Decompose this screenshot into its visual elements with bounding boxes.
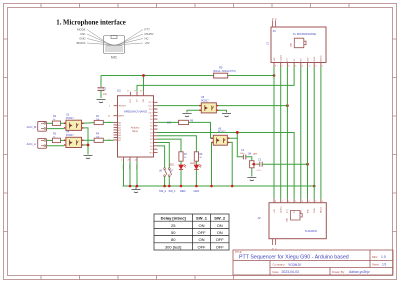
- resistor R9 PTC: [214, 73, 228, 78]
- wire VIN drop: [143, 76, 145, 92]
- svg-text:MIC: MIC: [111, 56, 118, 60]
- wire R4 to A7: [103, 139, 113, 141]
- svg-text:SW_1: SW_1: [196, 216, 208, 221]
- resistor R3: [53, 138, 61, 142]
- wire to SW_1 column: [158, 143, 170, 168]
- svg-text:MIC: MIC: [307, 209, 309, 213]
- resistor R4: [94, 138, 103, 142]
- capacitor C1: [98, 76, 108, 99]
- svg-text:SW_2: SW_2: [159, 189, 167, 193]
- wire U4 out to R4: [83, 139, 94, 141]
- wire to SW_2 column: [158, 146, 165, 168]
- svg-text:SW_2: SW_2: [214, 216, 226, 221]
- svg-text:ON: ON: [199, 237, 205, 242]
- connector ACC_B: [27, 122, 47, 132]
- resistor R2: [53, 121, 61, 125]
- wire D4 long to radio col: [158, 132, 295, 198]
- svg-text:OFF: OFF: [198, 244, 207, 249]
- switch SW_2: [159, 168, 167, 186]
- svg-text:OFF: OFF: [198, 230, 207, 235]
- LED1: [169, 161, 186, 186]
- svg-text:80: 80: [171, 237, 176, 242]
- mic drawing fan lines left: [87, 30, 143, 46]
- junction on D4 wire: [236, 131, 239, 134]
- ground under pot: [247, 178, 256, 181]
- svg-text:SW_1: SW_1: [169, 189, 177, 193]
- svg-text:GND: GND: [314, 208, 316, 213]
- shield pins top: [273, 21, 276, 28]
- junction bus nodes: [129, 185, 132, 188]
- shield pins bottom: [273, 239, 276, 245]
- svg-text:RED: RED: [180, 189, 186, 193]
- svg-text:PTT: PTT: [287, 57, 289, 62]
- svg-text:PC817: PC817: [201, 99, 209, 102]
- RJ45 glyph: [294, 38, 306, 48]
- svg-text:Nano: Nano: [132, 130, 139, 133]
- junction node VIN: [142, 74, 145, 77]
- svg-text:MIC: MIC: [80, 32, 85, 36]
- svg-text:Delay [mSec]: Delay [mSec]: [161, 216, 187, 221]
- mic drawing fan lines right: [118, 30, 143, 46]
- svg-text:ON: ON: [217, 223, 223, 228]
- svg-text:C1: C1: [103, 87, 107, 91]
- right pins: [154, 102, 158, 152]
- title block: [233, 250, 393, 275]
- svg-text:ARDUINO NANO: ARDUINO NANO: [124, 110, 148, 114]
- svg-text:BData: BData: [320, 206, 323, 213]
- svg-text:R9: R9: [219, 66, 223, 70]
- svg-text:PC817: PC817: [66, 134, 74, 137]
- wire D2 to R7 column: [158, 139, 182, 152]
- optocoupler U4 PC817: [64, 131, 84, 148]
- svg-text:OFF: OFF: [216, 237, 225, 242]
- wire ACC_A pin2 to U4 pin2: [47, 145, 65, 147]
- wire D12 to U5: [158, 105, 200, 107]
- svg-text:ACC_B: ACC_B: [27, 125, 36, 129]
- ground on bus: [132, 186, 141, 193]
- svg-text:Up/Dw: Up/Dw: [281, 206, 283, 213]
- mic drawing labels: [77, 27, 154, 59]
- svg-text:RX: RX: [150, 152, 154, 154]
- svg-text:!RESET: !RESET: [118, 106, 127, 108]
- svg-text:Date:: Date:: [273, 270, 280, 274]
- bottom pin stubs: [274, 63, 321, 67]
- gnd bus: [123, 162, 315, 187]
- svg-text:LED2: LED2: [190, 163, 196, 165]
- svg-text:MIC: MIC: [307, 57, 309, 61]
- ground arrow left of U5: [183, 114, 192, 117]
- svg-text:To RADIO: To RADIO: [305, 229, 318, 233]
- junction PTT col: [286, 104, 289, 107]
- capacitor C2: [257, 159, 308, 172]
- svg-text:GND: GND: [79, 36, 85, 40]
- svg-text:GND: GND: [314, 56, 316, 61]
- ground under optos: [84, 156, 93, 159]
- svg-text:To MICROPHONE: To MICROPHONE: [293, 32, 316, 36]
- svg-text:PC817: PC817: [66, 117, 74, 120]
- svg-text:+8V: +8V: [274, 209, 276, 213]
- svg-text:10n: 10n: [103, 93, 108, 96]
- svg-text:100n: 100n: [240, 153, 246, 155]
- switch SW_1: [168, 168, 174, 186]
- svg-text:U2: U2: [117, 89, 121, 93]
- svg-text:LAN: LAN: [286, 217, 289, 222]
- connector J1 To MICROPHONE: [265, 17, 326, 67]
- wire R1 to A0: [103, 121, 113, 123]
- optocoupler U5 PC817: [199, 96, 218, 113]
- svg-text:REV:: REV:: [372, 255, 378, 259]
- svg-text:100: 100: [167, 122, 172, 125]
- wire U8 pin3 down to bus: [229, 142, 232, 186]
- svg-text:PTT: PTT: [145, 27, 151, 31]
- svg-text:(AF): (AF): [253, 153, 258, 156]
- junction opto emitters: [87, 144, 90, 147]
- wire U5 pin4 to mic PTT col: [218, 105, 287, 107]
- svg-text:BData: BData: [320, 55, 323, 62]
- mic drawing: RJ45 jack front view: [104, 36, 125, 54]
- ground right of U5: [222, 114, 231, 117]
- svg-text:1.0: 1.0: [381, 255, 386, 259]
- wire ACC_B pin1 to R2: [47, 122, 53, 124]
- svg-text:Sheet:: Sheet:: [372, 263, 380, 267]
- svg-text:300 [test]: 300 [test]: [165, 244, 181, 249]
- svg-text:LED1: LED1: [169, 165, 175, 167]
- svg-text:J3: J3: [273, 29, 277, 33]
- wire U3/U4 emitters to ground: [83, 128, 88, 155]
- svg-text:ACC_A: ACC_A: [27, 142, 36, 146]
- svg-text:ON: ON: [217, 230, 223, 235]
- RJ45 glyph: [291, 211, 303, 221]
- svg-text:LAN: LAN: [290, 42, 293, 47]
- connector ACC_A: [27, 139, 47, 149]
- ground (earth) under C1: [97, 100, 106, 103]
- junction node +8V col: [273, 74, 276, 77]
- svg-text:MSI/5V: MSI/5V: [145, 32, 154, 36]
- svg-text:BDATA: BDATA: [77, 41, 86, 45]
- svg-text:AREF: AREF: [118, 115, 124, 118]
- svg-text:OFF: OFF: [216, 244, 225, 249]
- wire D3 to R8 column: [158, 136, 197, 152]
- trimmer pot R10: [248, 153, 258, 177]
- wire ACC_B pin2 to U3 pin2: [47, 128, 65, 130]
- wire U5 pin3 to ground: [218, 110, 226, 112]
- svg-text:25: 25: [171, 223, 176, 228]
- LED2: [190, 161, 202, 186]
- capacitor C3: [240, 149, 252, 161]
- svg-text:YO3HJV: YO3HJV: [288, 263, 302, 267]
- bottom pins GND: [124, 157, 138, 162]
- connector J2 To RADIO: [257, 199, 326, 251]
- resistor R7: [179, 152, 183, 161]
- svg-text:VIN: VIN: [143, 98, 145, 102]
- arduino U2: [108, 89, 158, 170]
- wire +8V top rail: [101, 67, 294, 92]
- wire R3 to U4 pin1: [61, 139, 65, 141]
- resistor R6: [179, 120, 189, 124]
- svg-text:MODE: MODE: [77, 27, 86, 31]
- left pins: [114, 106, 118, 140]
- wire R6 to U8 pin1: [189, 122, 212, 138]
- wire R2 to U3 pin1: [61, 122, 65, 124]
- wire D7 to R6: [158, 121, 179, 123]
- svg-text:NC: NC: [301, 209, 303, 213]
- resistor R1: [94, 120, 103, 124]
- svg-text:Drawn By:: Drawn By:: [332, 270, 345, 274]
- wire U5 pin2 to ground: [187, 110, 200, 112]
- wire 5V to mic col: [137, 67, 294, 92]
- top pin stubs: [274, 199, 321, 203]
- svg-text:Up/Dw: Up/Dw: [281, 55, 283, 62]
- top pins: [130, 92, 143, 96]
- svg-text:PTT: PTT: [287, 208, 289, 213]
- delay table: [154, 214, 229, 250]
- net labels SW_2 SW_1 RED GRN: [159, 189, 199, 193]
- svg-text:Adrian,yo3hjv: Adrian,yo3hjv: [349, 270, 370, 274]
- svg-text:1/1: 1/1: [382, 263, 387, 267]
- wire U8 pin2 down to bus: [211, 142, 213, 186]
- svg-text:2023-04-03: 2023-04-03: [282, 270, 299, 274]
- svg-text:1. Microphone interface: 1. Microphone interface: [56, 20, 126, 27]
- svg-text:50: 50: [171, 230, 176, 235]
- svg-text:NC: NC: [145, 36, 149, 40]
- svg-text:J2: J2: [257, 216, 261, 220]
- svg-text:ON: ON: [199, 223, 205, 228]
- svg-text:NC: NC: [301, 58, 303, 62]
- svg-text:+8V: +8V: [145, 41, 150, 45]
- wire U8 pin4 branch: [229, 132, 243, 156]
- optocoupler U8 PC817: [211, 128, 229, 146]
- vertical net columns between connectors: [274, 67, 321, 199]
- svg-text:J1: J1: [265, 42, 269, 45]
- svg-text:+8V: +8V: [274, 57, 276, 61]
- optocoupler U3 PC817: [64, 114, 84, 131]
- resistor R8: [194, 152, 198, 161]
- svg-text:GRN: GRN: [194, 189, 200, 193]
- svg-text:PTT Sequencer for Xiegu G90 -: PTT Sequencer for Xiegu G90 - Arduino ba…: [239, 255, 349, 261]
- svg-text:TITLE:: TITLE:: [235, 251, 243, 254]
- junction mic audio col: [306, 163, 309, 166]
- wire ACC_A pin1 to R3: [47, 139, 53, 141]
- wire U3 out to R1: [83, 122, 94, 125]
- svg-text:Company:: Company:: [273, 263, 286, 267]
- svg-text:(20mA-..500mA PTC): (20mA-..500mA PTC): [213, 70, 236, 73]
